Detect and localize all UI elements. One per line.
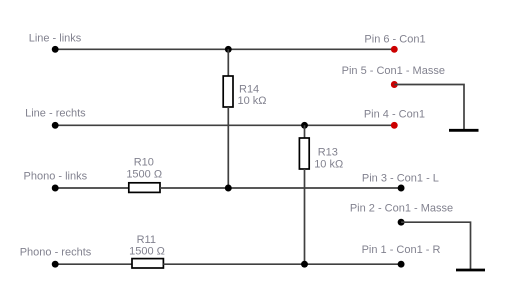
svg-text:R13: R13 bbox=[318, 147, 338, 159]
svg-text:1500 Ω: 1500 Ω bbox=[129, 245, 165, 257]
wire row B (Line-rechts to Pin 4) bbox=[55, 124, 394, 126]
pin Pin 1 - Con1 - R bbox=[398, 261, 405, 268]
svg-text:Line - rechts: Line - rechts bbox=[25, 108, 86, 120]
svg-text:R14: R14 bbox=[239, 84, 259, 96]
svg-text:Phono - rechts: Phono - rechts bbox=[20, 247, 92, 259]
resistor R11 body bbox=[132, 259, 163, 268]
node junction R14 top bbox=[225, 46, 232, 53]
terminal Line - links bbox=[52, 46, 59, 53]
svg-text:Line - links: Line - links bbox=[29, 33, 82, 45]
terminal Phono - links bbox=[52, 185, 59, 192]
node junction R13 bottom bbox=[301, 261, 308, 268]
wire R14 top lead bbox=[227, 49, 229, 76]
svg-text:Pin 2 - Con1 - Masse: Pin 2 - Con1 - Masse bbox=[350, 203, 453, 215]
pin Pin 2 - Con1 - Masse bbox=[398, 219, 405, 226]
pin Pin 3 - Con1 - L bbox=[398, 185, 405, 192]
ground symbol (Pin 2) bbox=[456, 269, 485, 272]
wire R13 bottom lead bbox=[304, 169, 306, 264]
svg-text:1500 Ω: 1500 Ω bbox=[126, 168, 162, 180]
wire row C right (R10 to Pin 3) bbox=[160, 187, 401, 189]
svg-text:10 kΩ: 10 kΩ bbox=[238, 95, 267, 107]
pin Pin 5 - Con1 - Masse (red) bbox=[391, 81, 398, 88]
pin Pin 4 - Con1 (red) bbox=[391, 122, 398, 129]
svg-text:Pin 5 - Con1 - Masse: Pin 5 - Con1 - Masse bbox=[342, 65, 445, 77]
resistor R14 body bbox=[223, 76, 233, 107]
wire row D right (R11 to Pin 1) bbox=[163, 263, 401, 265]
node junction R14 bottom bbox=[225, 185, 232, 192]
svg-text:R11: R11 bbox=[137, 234, 156, 246]
svg-text:R10: R10 bbox=[134, 157, 154, 169]
node junction R13 top bbox=[301, 122, 308, 129]
resistor R13 body bbox=[299, 138, 309, 169]
svg-text:Pin 1 - Con1 - R: Pin 1 - Con1 - R bbox=[362, 244, 441, 256]
wire R14 bottom lead bbox=[227, 107, 229, 188]
wire R13 top lead bbox=[304, 125, 306, 138]
wire row A (Line-links to Pin 6) bbox=[55, 48, 394, 50]
pin Pin 6 - Con1 (red) bbox=[391, 46, 398, 53]
terminal Line - rechts bbox=[52, 122, 59, 129]
wire Pin 2 to ground bbox=[401, 222, 470, 270]
svg-text:Phono - links: Phono - links bbox=[24, 170, 88, 182]
svg-text:10 kΩ: 10 kΩ bbox=[314, 158, 343, 170]
resistor R10 body bbox=[129, 183, 160, 193]
wire Pin 5 to ground bbox=[394, 85, 464, 131]
ground symbol (Pin 5) bbox=[449, 129, 479, 132]
wire row C left (Phono-links to R10) bbox=[55, 187, 129, 189]
svg-text:Pin 3 - Con1 - L: Pin 3 - Con1 - L bbox=[362, 172, 439, 184]
svg-text:Pin 6 - Con1: Pin 6 - Con1 bbox=[364, 34, 425, 46]
wire row D left (Phono-rechts to R11) bbox=[55, 263, 132, 265]
terminal Phono - rechts bbox=[52, 261, 59, 268]
svg-text:Pin 4 - Con1: Pin 4 - Con1 bbox=[364, 108, 425, 120]
